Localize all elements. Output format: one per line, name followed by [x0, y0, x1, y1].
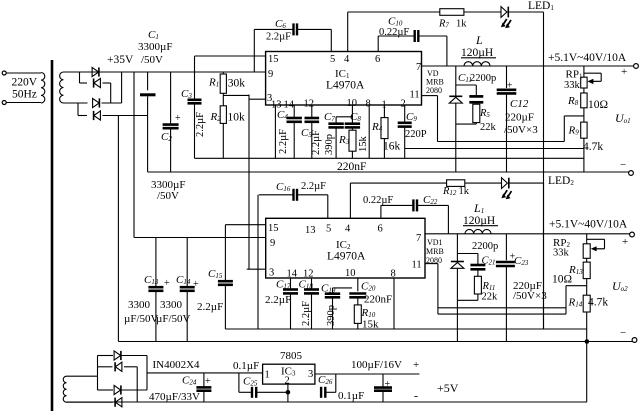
wire 7805 input line: [147, 372, 263, 374]
capacitor C16: [259, 181, 328, 201]
svg-text:/50V×3: /50V×3: [504, 124, 538, 136]
svg-text:470µF/33V: 470µF/33V: [149, 391, 200, 403]
svg-text:9: 9: [268, 69, 273, 80]
svg-text:33k: 33k: [564, 80, 581, 91]
svg-text:/50V: /50V: [157, 190, 179, 202]
diode VD bottom-1: [98, 351, 148, 360]
transformer T secondary winding 2: [63, 376, 66, 402]
svg-text:220nF: 220nF: [337, 161, 366, 173]
capacitor C22: [363, 194, 448, 211]
svg-text:0.1µF: 0.1µF: [233, 360, 259, 372]
label L1 value: [463, 215, 498, 227]
svg-text:2.2µF: 2.2µF: [311, 130, 322, 155]
svg-text:16k: 16k: [383, 141, 401, 153]
svg-text:3: 3: [269, 268, 274, 279]
label C14 value: [156, 299, 191, 325]
AC source terminal bottom: [2, 101, 6, 105]
svg-text:390p: 390p: [324, 134, 335, 155]
label C7 value: [324, 134, 335, 155]
wire secondary bottom / D3 line: [64, 102, 88, 104]
transformer T secondary winding 1: [60, 72, 64, 103]
terminal output1 plus: [621, 64, 638, 78]
label 100uF/16V: [351, 359, 402, 371]
label VD MRB 2080: [426, 69, 444, 95]
svg-text:15: 15: [268, 54, 279, 65]
capacitor C8: [345, 111, 362, 130]
svg-text:11: 11: [412, 260, 422, 271]
wire feedback line 2: [405, 148, 584, 150]
capacitor C12: [497, 66, 539, 172]
wire pin7-2 output rail 2: [425, 233, 630, 235]
capacitor C10: [378, 16, 447, 43]
AC source terminal top: [2, 71, 6, 75]
label C1 value: [138, 29, 172, 66]
wire C22 left to pin6: [380, 205, 382, 218]
svg-text:11: 11: [410, 90, 420, 101]
voltage regulator IC3 7805: [263, 350, 315, 387]
resistor R12: [442, 180, 470, 197]
wire IC1 pin4 up: [347, 12, 349, 52]
label C3 value: [195, 112, 206, 137]
label IN4002X4: [153, 359, 201, 371]
svg-text:2080: 2080: [426, 86, 442, 95]
wire 7805 output: [315, 359, 420, 374]
svg-text:+: +: [193, 279, 199, 290]
wire pin8 down: [368, 105, 370, 158]
svg-text:2.2µF: 2.2µF: [301, 301, 312, 326]
label +5.1V output 2: [549, 219, 628, 231]
svg-text:1k: 1k: [456, 19, 467, 30]
capacitor C5: [301, 105, 319, 158]
svg-text:µF/50V: µF/50V: [156, 313, 191, 325]
junction dot pin2: [286, 390, 291, 395]
svg-text:+: +: [175, 113, 181, 124]
wire pin10-2 down: [357, 278, 359, 291]
svg-text:2.2µF: 2.2µF: [197, 301, 223, 313]
svg-text:1k: 1k: [459, 186, 470, 197]
svg-text:220µF: 220µF: [505, 112, 534, 124]
resistor R5: [456, 104, 497, 133]
svg-text:+5.1V~40V/10A: +5.1V~40V/10A: [548, 52, 627, 64]
svg-text:30k: 30k: [228, 78, 246, 90]
svg-text:7805: 7805: [280, 350, 303, 362]
resistor R13: [552, 258, 590, 285]
capacitor C20: [349, 281, 392, 306]
capacitor C27: [374, 374, 392, 402]
wire R7 LED1 line: [348, 11, 544, 13]
svg-text:L4970A: L4970A: [326, 80, 365, 92]
LED LED2: [501, 175, 574, 199]
svg-text:13: 13: [305, 225, 316, 236]
svg-text:220V: 220V: [12, 77, 38, 89]
terminal output2 minus: [620, 327, 637, 342]
wire C16 left down to bus: [257, 195, 259, 329]
label C19 value: [326, 305, 337, 326]
wire C19 tap: [333, 288, 353, 293]
resistor R3: [338, 130, 356, 158]
label L value: [461, 47, 496, 59]
wire C10 right down to pin7 line: [446, 36, 448, 66]
svg-text:8: 8: [366, 99, 371, 110]
resistor R14: [568, 295, 609, 402]
svg-text:220P: 220P: [405, 129, 427, 140]
wire IC1 pin3: [249, 98, 266, 100]
capacitor C6: [254, 18, 331, 43]
svg-text:+: +: [621, 66, 627, 78]
resistor R10: [354, 305, 379, 331]
wire ground rail bottom: [67, 401, 587, 403]
svg-text:2.2µF: 2.2µF: [265, 294, 291, 306]
terminal output2 plus: [622, 232, 634, 248]
svg-text:100µF/16V: 100µF/16V: [351, 359, 402, 371]
capacitor C1: [140, 72, 156, 172]
capacitor C23: [496, 234, 547, 342]
svg-text:8: 8: [391, 269, 396, 280]
svg-text:120µH: 120µH: [461, 47, 493, 59]
potentiometer RP2: [553, 234, 605, 259]
svg-text:/50V: /50V: [141, 54, 163, 66]
capacitor C25: [239, 373, 288, 398]
wire C6 right to pin5: [330, 29, 332, 51]
wire +35V feed to lower section: [134, 72, 266, 238]
wire feedback line 2-2: [438, 307, 566, 309]
svg-text:3300µF: 3300µF: [138, 41, 172, 53]
capacitor C17: [265, 278, 298, 329]
svg-text:2.2µF: 2.2µF: [266, 32, 291, 43]
svg-text:2.2µF: 2.2µF: [301, 181, 326, 192]
wire divider to pin3 nets: [248, 95, 250, 270]
svg-text:MRB: MRB: [426, 247, 444, 256]
wire LED2 cathode down: [543, 183, 545, 329]
svg-text:0.22µF: 0.22µF: [379, 27, 409, 38]
diode VD bottom-4: [67, 398, 122, 407]
terminal output1 minus: [620, 159, 633, 175]
svg-text:15k: 15k: [358, 136, 369, 153]
svg-text:7: 7: [416, 62, 421, 73]
transformer core: [51, 60, 54, 411]
capacitor C14: [176, 238, 199, 342]
svg-text:2: 2: [285, 376, 290, 387]
wire pin11-2: [425, 264, 438, 315]
capacitor C13: [144, 238, 170, 342]
resistor R1: [208, 74, 245, 93]
inductor L1: [465, 201, 491, 234]
wire D4 anode line: [103, 115, 148, 117]
svg-text:+5.1V~40V/10A: +5.1V~40V/10A: [549, 219, 628, 231]
svg-text:220nF: 220nF: [364, 294, 392, 306]
wire IC1 pin15: [195, 55, 266, 57]
capacitor C24: [182, 373, 211, 402]
wire C6 left to pin9 rail: [253, 29, 255, 72]
capacitor C4: [277, 105, 302, 158]
wire pin2 ground: [287, 384, 289, 402]
label C2 value: [151, 179, 185, 202]
svg-text:5: 5: [326, 224, 331, 235]
svg-text:2.2µF: 2.2µF: [195, 112, 206, 137]
wire D6 junction down: [136, 367, 138, 402]
svg-text:4: 4: [345, 224, 351, 235]
wire pin11: [422, 96, 438, 142]
svg-text:C12: C12: [510, 98, 529, 110]
label +5V: [437, 381, 459, 395]
resistor R8: [567, 88, 608, 111]
capacitor C2: [161, 72, 181, 172]
diode VD MRB2080: [449, 66, 462, 172]
wire IC2 pin15: [225, 224, 265, 226]
svg-text:22k: 22k: [480, 122, 497, 133]
svg-text:22k: 22k: [482, 292, 499, 303]
svg-text:10: 10: [347, 98, 358, 109]
svg-text:15: 15: [268, 223, 279, 234]
inductor L: [464, 33, 490, 66]
svg-text:5: 5: [330, 54, 335, 65]
wire D2 anode to D3 line: [103, 83, 111, 103]
resistor R9: [568, 122, 604, 172]
junction dot R14 negative bus: [585, 339, 590, 344]
label 0.1uF C25: [233, 360, 259, 372]
capacitor C15: [208, 225, 233, 329]
wire C10 left to pin6: [377, 36, 379, 52]
svg-text:4.7k: 4.7k: [588, 297, 608, 309]
label VD1 MRB 2080: [426, 238, 444, 265]
wire R1-R2 junction: [223, 93, 249, 106]
svg-text:10: 10: [345, 268, 356, 279]
svg-text:9: 9: [270, 238, 275, 249]
wire R8 R9 junction feedback: [438, 108, 584, 142]
wire C22 right down: [447, 205, 449, 233]
svg-text:3300: 3300: [160, 299, 183, 311]
svg-text:+: +: [622, 236, 628, 248]
wire LED1 cathode down: [543, 12, 545, 329]
wire D3 cathode to rail: [102, 72, 122, 103]
svg-text:-: -: [414, 389, 418, 403]
diode VD top-3: [93, 98, 100, 107]
label C5 value: [311, 130, 322, 155]
resistor R2: [210, 106, 246, 124]
wire pin7 output rail 1: [422, 65, 635, 67]
svg-text:0.22µF: 0.22µF: [363, 195, 393, 206]
svg-text:2200p: 2200p: [470, 73, 496, 84]
svg-text:12: 12: [304, 99, 315, 110]
wire R13 R14 junction feedback: [438, 279, 587, 315]
wire R12 LED2 line: [350, 182, 543, 184]
label C4 value: [278, 129, 289, 154]
label C15 value: [197, 301, 223, 313]
resistor R4: [371, 105, 401, 158]
op-amp regulator IC1 L4970A: [266, 52, 422, 111]
label Uo1: [615, 111, 631, 125]
label minus 5V: [414, 389, 418, 403]
label +35V: [107, 54, 134, 66]
wire IC2 component bus: [225, 328, 587, 330]
wire jog to D4: [78, 103, 87, 116]
svg-text:L: L: [475, 33, 483, 47]
svg-text:3: 3: [308, 369, 313, 380]
label C13 value: [124, 299, 159, 325]
op-amp regulator IC2 L4970A: [266, 218, 425, 279]
svg-text:14: 14: [284, 100, 295, 111]
wire source to primary top: [6, 72, 41, 74]
label +5.1V output 1: [548, 52, 627, 64]
diode VD top-2: [94, 78, 101, 87]
wire R1 top: [222, 72, 224, 74]
transformer T primary winding: [41, 73, 45, 104]
capacitor C26: [318, 374, 364, 402]
wire R2 bottom: [222, 123, 224, 158]
svg-text:/50V×3: /50V×3: [513, 290, 547, 302]
potentiometer RP1: [564, 66, 601, 91]
svg-text:VD1: VD1: [427, 238, 443, 247]
wire IC2 pin3: [247, 268, 266, 270]
svg-text:+5V: +5V: [437, 381, 459, 395]
svg-text:10k: 10k: [228, 112, 246, 124]
wire negative feed down: [117, 116, 119, 342]
svg-text:L4970A: L4970A: [327, 251, 366, 263]
wire pin13 down: [274, 105, 276, 158]
svg-text:µF/50V: µF/50V: [124, 313, 159, 325]
svg-text:50Hz: 50Hz: [12, 89, 37, 101]
label 220nF bus: [337, 161, 366, 173]
svg-text:4: 4: [344, 54, 350, 65]
wire jog to D2: [80, 72, 88, 83]
diode VD bottom-3: [98, 385, 148, 394]
svg-text:6: 6: [375, 54, 380, 65]
capacitor C3: [181, 56, 202, 158]
svg-text:3300: 3300: [128, 299, 151, 311]
svg-text:14: 14: [287, 269, 298, 280]
svg-text:0.1µF: 0.1µF: [338, 390, 364, 402]
svg-text:1: 1: [265, 370, 270, 381]
diode VD top-4: [94, 111, 101, 120]
svg-text:−: −: [620, 159, 626, 171]
svg-text:+: +: [413, 359, 419, 371]
capacitor C21: [457, 241, 498, 269]
svg-text:10Ω: 10Ω: [552, 274, 572, 286]
diode VD1 MRB2080: [451, 234, 464, 342]
capacitor C11: [456, 72, 496, 102]
wire rectifier2 positive: [146, 356, 148, 391]
capacitor C7: [324, 111, 344, 158]
wire winding2 top: [67, 356, 98, 391]
wire C16 right to pin5: [327, 195, 329, 219]
svg-text:2200p: 2200p: [472, 241, 498, 252]
svg-text:2.2µF: 2.2µF: [278, 129, 289, 154]
label R3 value: [358, 136, 369, 153]
capacitor C18: [299, 278, 320, 329]
wire IC2 pin4 up: [349, 183, 351, 218]
svg-text:7: 7: [416, 233, 421, 244]
wire negative bus 1: [148, 171, 629, 173]
svg-text:+35V: +35V: [107, 54, 134, 66]
label Uo2: [612, 279, 628, 293]
resistor R7: [438, 9, 467, 30]
svg-text:+: +: [205, 376, 211, 387]
wire pin10 down: [351, 105, 353, 123]
svg-text:390p: 390p: [326, 305, 337, 326]
wire source to primary bottom: [6, 102, 41, 105]
wire C7 tap: [336, 117, 352, 123]
svg-text:4.7k: 4.7k: [583, 141, 603, 153]
capacitor C19: [321, 283, 340, 330]
svg-text:IN4002X4: IN4002X4: [153, 359, 201, 371]
wire negative bus 2: [118, 341, 634, 343]
label 220V 50Hz: [12, 77, 38, 101]
LED LED1: [501, 0, 554, 28]
svg-text:33k: 33k: [553, 248, 570, 259]
svg-text:+: +: [164, 278, 170, 289]
svg-text:−: −: [620, 327, 626, 339]
resistor R11: [457, 271, 498, 303]
diode VD top-1: [92, 67, 99, 76]
capacitor C9: [398, 105, 427, 158]
wire IC1 component bus: [195, 157, 584, 159]
diode VD bottom-2: [98, 362, 138, 371]
wire pin8-2 down: [393, 278, 395, 329]
label C18 value: [301, 301, 312, 326]
svg-text:6: 6: [378, 224, 383, 235]
label C24 value: [149, 391, 200, 403]
wire secondary top to D1 / +35V rail: [64, 71, 266, 73]
svg-text:10Ω: 10Ω: [588, 99, 608, 111]
